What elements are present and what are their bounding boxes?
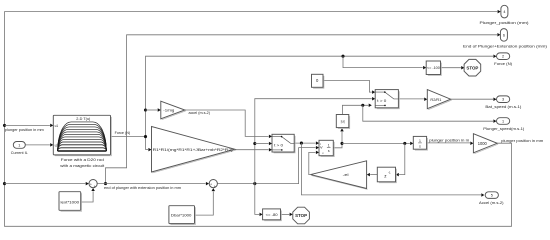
- wire: Force (N) from lookup output, up to outport 2: [111, 136, 146, 138]
- svg-text:+: +: [94, 185, 96, 189]
- wire: force into big gain: [146, 149, 149, 151]
- wire: speed integrator output up to abs block: [333, 132, 342, 148]
- svg-text:Dbar*1000: Dbar*1000: [171, 213, 192, 218]
- wire: accel (m.s-2) from -1/mg to switch1 input 1: [185, 110, 269, 136]
- constant 0: [313, 76, 324, 88]
- wire: branch to 2-D lookup input u1: [5, 124, 50, 126]
- svg-text:R1*R1/(mg*R1*R1+JBar+mb*R2*R2): R1*R1/(mg*R1*R1+JBar+mb*R2*R2): [153, 147, 234, 152]
- wire: abs speed down and right to outport 1: [363, 105, 493, 121]
- outport 4 Plunger_position (mm): [501, 5, 508, 18]
- svg-text:Plunger_position (mm): Plunger_position (mm): [480, 20, 530, 25]
- svg-text:R2/R1: R2/R1: [430, 97, 442, 102]
- integrator 1/s (position): [413, 136, 427, 150]
- outport 1 Plunger_speed(m.s-1): [497, 118, 510, 125]
- wire: compare <= -100 to STOP: [441, 67, 461, 69]
- node: junction on left trunk to sum1: [3, 182, 6, 185]
- svg-text:Force with a D20 rod: Force with a D20 rod: [61, 157, 104, 162]
- node: junction riser to switch1 input 2: [253, 142, 256, 145]
- node: junction end-of-plunger to switches and stop compare: [253, 182, 256, 185]
- outport 2 Force (N): [497, 53, 510, 60]
- svg-text:STOP: STOP: [466, 65, 478, 70]
- wire: gain R2/R1 to outport 3: [451, 98, 493, 100]
- svg-text:1: 1: [419, 139, 421, 143]
- node: junction on left trunk to lookup u1: [3, 124, 6, 127]
- svg-text:|u|: |u|: [341, 120, 345, 124]
- switch2 (bat speed select, t > 0): [375, 90, 399, 109]
- compare block <= -80: [264, 211, 281, 221]
- svg-text:+: +: [210, 182, 212, 186]
- svg-text:4: 4: [503, 10, 505, 14]
- wire: speed to position integrator 1/s: [342, 142, 410, 144]
- wire: position integrator output to gain 1000 (plunger position in m): [427, 142, 470, 144]
- wire: end of plunger + extension feedback to outport 6: [106, 35, 498, 184]
- svg-text:with a magnetic circuit: with a magnetic circuit: [60, 163, 105, 168]
- svg-text:<= -80: <= -80: [266, 213, 278, 217]
- constant block Dbar*1000: [171, 207, 196, 224]
- lookup table: Force with a D20 rod (2-D T(u)): [53, 115, 111, 156]
- wire: force branch into -1/mg gain: [146, 109, 158, 111]
- wire: drop to compare <= -80: [255, 184, 259, 215]
- svg-text:plunger position in mm: plunger position in mm: [5, 128, 44, 132]
- node: junction end-of-plunger at sum1 output: [104, 182, 107, 185]
- svg-text:1000: 1000: [478, 141, 488, 146]
- svg-text:2-D T(u): 2-D T(u): [76, 117, 91, 121]
- node: junction abs speed to outport 1: [361, 104, 364, 107]
- wire: -el gain output to integrator initial condition input: [309, 152, 316, 174]
- svg-text:Bat_speed (m.s-1): Bat_speed (m.s-1): [485, 104, 522, 109]
- wire: unit delay output to -el gain: [370, 174, 377, 176]
- wire: abs output up to switch2 input 3: [342, 105, 368, 114]
- svg-text:2: 2: [502, 55, 504, 59]
- gain -el (restitution, mirrored): [312, 176, 368, 190]
- svg-text:3: 3: [502, 98, 504, 102]
- svg-text:Plunger_speed(m.s-1): Plunger_speed(m.s-1): [483, 126, 525, 131]
- integrator 1/s with reset and IC (speed): [319, 140, 334, 156]
- node: junction speed to unit delay: [403, 142, 406, 145]
- compare block <= -100: [428, 63, 442, 76]
- wire: constant 0 to switch2 input 1: [323, 80, 372, 92]
- wire: branch to switch1 input 2: [255, 143, 269, 145]
- wire: riser to switch2 input 2: [255, 99, 372, 184]
- svg-text:plunger position in mm: plunger position in mm: [501, 139, 543, 143]
- svg-text:t > 0: t > 0: [274, 144, 283, 148]
- wire: switch2 output to gain R2/R1: [398, 98, 424, 100]
- svg-text:Accel (m.s-2): Accel (m.s-2): [479, 200, 504, 205]
- outport 5 Accel (m.s-2): [485, 192, 498, 199]
- node: junction speed to position integrator: [340, 142, 343, 145]
- abs block |u|: [338, 116, 350, 128]
- wire: sum2 output to integrator reset (via right riser): [218, 148, 316, 184]
- switch1 (bounce select, t > 0): [272, 134, 295, 153]
- svg-text:lext*1000: lext*1000: [61, 199, 80, 204]
- wire: lext*1000 to sum1 lower input: [81, 191, 93, 202]
- outport 6 End of Plunger+Extension position (mm): [500, 29, 507, 42]
- outport 3 Bat_speed (m.s-1): [497, 96, 510, 103]
- gain R2/R1: [428, 100, 451, 110]
- svg-text:End of Plunger+Extension posit: End of Plunger+Extension position (mm): [463, 43, 548, 48]
- svg-text:s: s: [419, 144, 421, 148]
- svg-text:+: +: [90, 182, 92, 186]
- svg-text:-el: -el: [343, 173, 349, 177]
- sum junction sum1 (end of plunger + lext): [89, 180, 97, 188]
- constant block lext*1000: [61, 193, 82, 211]
- svg-text:5: 5: [491, 194, 493, 198]
- node: junction force wire to -1/mg gain: [144, 108, 147, 111]
- svg-text:s: s: [328, 149, 330, 153]
- svg-text:6: 6: [503, 33, 505, 37]
- svg-text:Force (N): Force (N): [115, 131, 131, 135]
- svg-text:u1: u1: [55, 124, 59, 128]
- svg-text:-1/mg: -1/mg: [163, 109, 174, 113]
- wire: compare <= -80 to STOP: [281, 213, 290, 215]
- unit delay z^-1: [377, 167, 396, 183]
- STOP block (force limit): [464, 59, 481, 76]
- svg-text:end of plunger with extension: end of plunger with extension position i…: [104, 186, 181, 190]
- svg-text:plunger position in m: plunger position in m: [429, 138, 469, 142]
- wire: switch1 output (acceleration) to integrator 1/s input: [294, 142, 315, 144]
- svg-text:1: 1: [328, 144, 330, 148]
- wire: inport 1 Current IL to lookup u2: [25, 144, 50, 146]
- wire: big gain output to switch1 input 3: [235, 149, 269, 151]
- svg-text:STOP: STOP: [295, 213, 307, 218]
- gain -1/mg: [162, 111, 186, 120]
- inport 1 Current IL: [13, 142, 25, 149]
- sum junction sum2 (plus Dbar offset): [209, 180, 217, 188]
- node: junction force wire to stop compare: [341, 55, 344, 58]
- svg-text:1: 1: [18, 143, 20, 147]
- wire: force branch down to compare <= -100: [343, 56, 423, 67]
- wire: Dbar*1000 to sum2 lower input: [195, 192, 214, 216]
- wire: speed down into unit delay (right to left): [399, 143, 405, 174]
- svg-text:+: +: [214, 185, 216, 189]
- wire: sum1 output to sum2: [97, 183, 205, 185]
- wire: acceleration down and right to outport 5: [301, 143, 481, 195]
- svg-text:1: 1: [502, 119, 504, 123]
- svg-text:-1: -1: [388, 170, 391, 174]
- gain 1000 (m to mm): [474, 144, 498, 154]
- svg-text:Force (N): Force (N): [494, 61, 513, 66]
- wire: branch to sum1 left input: [5, 183, 86, 185]
- STOP block (end stop): [293, 207, 310, 224]
- svg-text:t > 0: t > 0: [377, 99, 386, 103]
- node: junction acceleration to outport 5: [300, 142, 303, 145]
- gain R1*R1/(mg*R1*R1+JBar+mb*R2*R2): [152, 150, 235, 173]
- svg-text:Current IL: Current IL: [11, 151, 28, 155]
- node: junction force wire at lookup output: [144, 135, 147, 138]
- svg-text:accel (m.s-2): accel (m.s-2): [189, 111, 211, 115]
- svg-text:<= -100: <= -100: [427, 66, 440, 70]
